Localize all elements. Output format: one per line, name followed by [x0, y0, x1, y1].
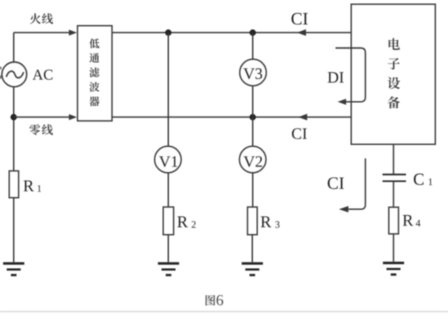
wire: R3 to ground — [251, 235, 253, 263]
arrow CI on top wire — [297, 29, 306, 36]
voltmeter V3 — [240, 59, 267, 86]
label R1 — [23, 180, 34, 191]
wire: C1 to R4 — [393, 181, 395, 207]
resistor R2 — [163, 207, 173, 235]
ground below R4 — [383, 262, 404, 265]
caption 图6 — [206, 295, 216, 306]
node junction top-1 — [165, 29, 171, 35]
wire: neutral (bottom) from filter to equipment box — [112, 116, 351, 118]
left edge artifact marks — [0, 67, 1, 70]
label CI (top) — [292, 13, 302, 25]
wire: R4 to ground — [393, 234, 395, 262]
source AC circle — [2, 62, 27, 87]
wire: V1 branch vertical — [167, 33, 169, 147]
label CI (bottom) — [292, 128, 301, 139]
wire: V2 to R3 — [252, 173, 254, 207]
CI hook arrow (bottom right) — [349, 158, 366, 209]
capacitor C1 bottom plate — [383, 180, 407, 182]
wire: live (top) from filter to equipment box — [112, 32, 351, 34]
ground below R2 — [158, 262, 179, 265]
label R4 — [403, 215, 414, 226]
wire: V3/V2 branch top — [252, 33, 254, 60]
label DI — [328, 72, 338, 83]
label 零线 — [29, 124, 40, 135]
voltmeter V2 — [239, 146, 266, 173]
label 低通滤波器 — [89, 39, 99, 49]
node junction neutral-left — [11, 114, 17, 120]
node junction top-2 — [250, 29, 256, 35]
wire: V3 to bottom wire — [252, 86, 254, 117]
label C1 — [414, 174, 424, 185]
wire: neutral (bottom) from source to filter — [14, 116, 70, 118]
wire: left vertical below source to R1 — [13, 87, 15, 171]
arrow into filter (bottom) — [69, 114, 77, 120]
arrow CI on bottom wire — [298, 114, 307, 121]
label 电子设备 — [389, 38, 400, 50]
wire: equipment box to C1 — [393, 144, 395, 174]
DI loop wire — [336, 48, 366, 102]
filter box 低通滤波器 — [78, 26, 113, 121]
DI arrowhead — [338, 99, 347, 105]
label R2 — [177, 216, 188, 227]
capacitor C1 top plate — [383, 174, 407, 176]
label CI (hook) — [328, 177, 338, 189]
wire: R2 to ground — [167, 235, 169, 263]
node junction bottom-2 — [250, 114, 256, 120]
label AC — [33, 70, 44, 80]
ground below R3 — [242, 262, 263, 265]
voltmeter V1 — [155, 146, 182, 173]
wire: live (top) from source corner to filter — [14, 32, 70, 34]
wire: R1 to ground — [13, 198, 15, 263]
sine symbol inside AC source — [6, 71, 23, 78]
equipment box 电子设备 — [351, 4, 435, 144]
resistor R4 — [389, 207, 399, 234]
resistor R3 — [248, 207, 258, 235]
faint page rule at bottom — [0, 311, 448, 313]
label R3 — [261, 216, 272, 227]
wire: left vertical upper — [13, 33, 15, 62]
wire: bottom wire to V2 — [252, 117, 254, 146]
CI hook arrowhead — [339, 206, 349, 212]
resistor R1 — [9, 171, 18, 198]
arrow into filter (top) — [69, 30, 77, 36]
ground below R1 — [3, 262, 24, 265]
wire: V1 to R2 — [167, 173, 169, 207]
label 火线 — [30, 13, 41, 24]
